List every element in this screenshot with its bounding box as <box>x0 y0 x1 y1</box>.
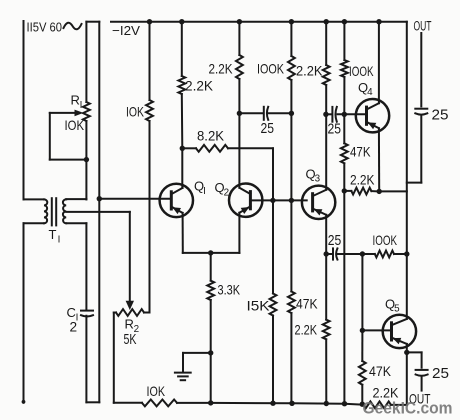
svg-text:IOOK: IOOK <box>257 61 284 76</box>
svg-text:5K: 5K <box>124 332 137 348</box>
svg-text:R: R <box>125 317 134 332</box>
svg-text:I: I <box>58 234 61 245</box>
svg-text:T: T <box>49 227 57 242</box>
svg-text:II5V 60: II5V 60 <box>27 20 63 35</box>
svg-text:5: 5 <box>394 304 400 315</box>
svg-text:2.2K: 2.2K <box>373 386 399 401</box>
svg-text:2.2K: 2.2K <box>296 64 323 79</box>
svg-text:R: R <box>71 93 80 108</box>
svg-text:IOK: IOK <box>126 105 144 120</box>
svg-text:I: I <box>80 100 83 111</box>
svg-text:IOK: IOK <box>147 384 166 399</box>
svg-text:25: 25 <box>261 121 275 137</box>
svg-text:25: 25 <box>328 121 342 137</box>
svg-text:3.3K: 3.3K <box>218 282 241 297</box>
svg-text:−I2V: −I2V <box>112 23 140 38</box>
svg-text:2.2K: 2.2K <box>295 323 318 338</box>
svg-text:IOOK: IOOK <box>373 233 398 248</box>
svg-text:2.2K: 2.2K <box>185 79 213 94</box>
svg-text:25: 25 <box>328 233 342 249</box>
svg-text:2.2K: 2.2K <box>350 172 375 187</box>
svg-text:47K: 47K <box>350 145 371 160</box>
svg-text:47K: 47K <box>296 296 318 311</box>
svg-text:C: C <box>67 305 76 320</box>
svg-text:GeekIC.com: GeekIC.com <box>363 400 453 418</box>
svg-text:2: 2 <box>70 320 78 335</box>
svg-text:25: 25 <box>432 108 449 124</box>
svg-text:I5K: I5K <box>247 299 270 314</box>
svg-text:I: I <box>203 186 206 197</box>
svg-text:25: 25 <box>432 366 449 382</box>
svg-text:IOOK: IOOK <box>349 64 374 79</box>
svg-text:47K: 47K <box>369 364 391 379</box>
svg-text:8.2K: 8.2K <box>197 129 224 144</box>
svg-text:IOK: IOK <box>65 118 85 133</box>
svg-text:3: 3 <box>315 174 321 185</box>
svg-text:4: 4 <box>367 87 373 98</box>
svg-text:OUT: OUT <box>414 19 432 35</box>
svg-text:2.2K: 2.2K <box>209 61 233 76</box>
svg-text:2: 2 <box>224 187 230 198</box>
